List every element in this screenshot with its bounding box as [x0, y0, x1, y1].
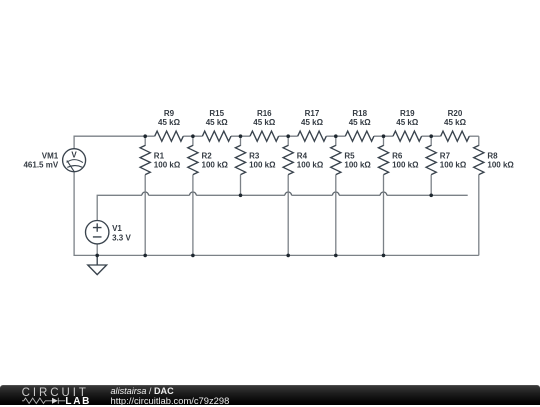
svg-text:V: V — [71, 150, 77, 159]
resistor R17 45 kΩ — [298, 109, 327, 141]
resistor R20 45 kΩ — [441, 109, 470, 141]
resistor R15 45 kΩ — [202, 109, 231, 141]
svg-text:461.5 mV: 461.5 mV — [23, 160, 58, 169]
svg-text:45 kΩ: 45 kΩ — [396, 118, 419, 127]
resistor R19 45 kΩ — [393, 109, 422, 141]
resistor R4 100 kΩ — [283, 136, 324, 174]
wire top rail segment across node F — [374, 135, 393, 137]
wire R1 bottom lead to ground rail — [144, 175, 146, 256]
svg-text:100 kΩ: 100 kΩ — [154, 161, 181, 170]
attribution text — [111, 386, 230, 407]
svg-text:R17: R17 — [305, 109, 320, 118]
wire R8 bottom lead to ground rail — [478, 175, 480, 256]
resistor R16 45 kΩ — [250, 109, 279, 141]
svg-text:V1: V1 — [112, 224, 122, 233]
wire R2 bottom lead to ground rail — [192, 175, 194, 256]
svg-text:R2: R2 — [202, 151, 213, 160]
wire R5 bottom lead to ground rail — [335, 175, 337, 256]
svg-text:45 kΩ: 45 kΩ — [253, 118, 276, 127]
svg-text:45 kΩ: 45 kΩ — [349, 118, 372, 127]
resistor R2 100 kΩ — [188, 136, 229, 174]
svg-text:100 kΩ: 100 kΩ — [297, 161, 324, 170]
svg-text:R19: R19 — [400, 109, 415, 118]
voltmeter VM1 461.5 mV — [23, 149, 85, 172]
wire bottom rail (ground net) — [74, 172, 479, 256]
svg-text:R7: R7 — [440, 151, 451, 160]
svg-text:R15: R15 — [209, 109, 224, 118]
svg-text:45 kΩ: 45 kΩ — [206, 118, 229, 127]
wire top rail segment across node E — [326, 135, 345, 137]
node junction dots on mid rail (R3, R7 taps) — [239, 194, 433, 198]
wire top rail segment across node D — [279, 135, 298, 137]
wire mid rail (V1 + terminal net, broken at wire hops) — [97, 195, 468, 220]
svg-text:100 kΩ: 100 kΩ — [392, 161, 419, 170]
svg-text:3.3 V: 3.3 V — [112, 233, 131, 242]
resistor R9 45 kΩ — [155, 109, 184, 141]
wire top rail left segment (VM1 to node A) — [74, 136, 155, 149]
resistor R6 100 kΩ — [378, 136, 419, 174]
svg-text:R4: R4 — [297, 151, 308, 160]
svg-text:R18: R18 — [352, 109, 367, 118]
svg-text:R6: R6 — [392, 151, 403, 160]
svg-text:R3: R3 — [249, 151, 260, 160]
wire top rail segment across node C — [231, 135, 250, 137]
wire R6 bottom lead to ground rail — [383, 175, 385, 256]
resistor R7 100 kΩ — [426, 136, 467, 174]
svg-text:R16: R16 — [257, 109, 272, 118]
svg-text:100 kΩ: 100 kΩ — [487, 161, 514, 170]
svg-text:100 kΩ: 100 kΩ — [440, 161, 467, 170]
svg-text:R20: R20 — [448, 109, 463, 118]
node junction dots on bottom rail — [95, 254, 385, 258]
footer attribution bar — [0, 385, 540, 405]
svg-text:R5: R5 — [344, 151, 355, 160]
svg-text:100 kΩ: 100 kΩ — [344, 161, 371, 170]
resistor R18 45 kΩ — [345, 109, 374, 141]
svg-text:100 kΩ: 100 kΩ — [249, 161, 276, 170]
CircuitLab logo — [21, 387, 101, 407]
svg-text:45 kΩ: 45 kΩ — [158, 118, 181, 127]
wire R4 bottom lead to ground rail — [287, 175, 289, 256]
svg-text:VM1: VM1 — [42, 151, 59, 160]
wire top rail segment across node G — [422, 135, 441, 137]
wire hop arcs over R1,R2,R4,R5,R6 leads — [142, 192, 387, 195]
svg-text:45 kΩ: 45 kΩ — [301, 118, 324, 127]
svg-text:R9: R9 — [164, 109, 175, 118]
svg-text:R1: R1 — [154, 151, 165, 160]
wire V1 bottom lead — [96, 244, 98, 256]
wire top rail segment across node B — [183, 135, 202, 137]
wire R7 bottom lead to mid rail — [430, 175, 432, 196]
svg-text:100 kΩ: 100 kΩ — [202, 161, 229, 170]
node junction dots on top rail (nodes A-G) — [143, 134, 433, 138]
resistor R8 100 kΩ — [474, 136, 515, 174]
voltage source V1 3.3 V — [86, 221, 132, 244]
wire top rail right end into R8 — [469, 135, 479, 137]
wire R3 bottom lead to mid rail — [240, 175, 242, 196]
svg-text:R8: R8 — [487, 151, 498, 160]
svg-text:45 kΩ: 45 kΩ — [444, 118, 467, 127]
ground symbol below V1 — [88, 255, 107, 274]
resistor R5 100 kΩ — [331, 136, 372, 174]
resistor R3 100 kΩ — [235, 136, 276, 174]
resistor R1 100 kΩ — [140, 136, 181, 174]
